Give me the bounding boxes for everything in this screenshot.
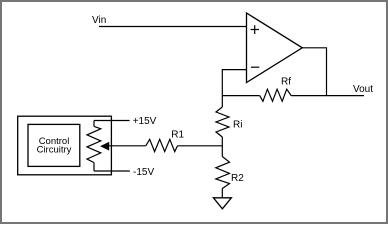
- wire wiper to R1: [108, 145, 146, 147]
- svg-text:R2: R2: [231, 173, 244, 184]
- svg-text:Vin: Vin: [92, 15, 106, 26]
- svg-text:Circuitry: Circuitry: [37, 145, 72, 156]
- svg-text:Ri: Ri: [233, 120, 242, 131]
- wire op-amp inverting input: [222, 70, 246, 96]
- op-amp U1: [247, 13, 303, 83]
- resistor Rf: [260, 77, 292, 102]
- svg-text:-15V: -15V: [133, 167, 154, 178]
- wire Vin to op-amp + input: [99, 26, 247, 28]
- node Vout: [353, 84, 373, 95]
- potentiometer: [87, 121, 109, 172]
- wire R1 row junction: [178, 145, 223, 147]
- node Vin: [92, 15, 106, 26]
- wire output to Vout: [291, 95, 364, 97]
- +15V supply: [94, 116, 157, 127]
- ground: [213, 198, 231, 209]
- svg-text:+15V: +15V: [133, 116, 157, 127]
- -15V supply: [94, 167, 154, 178]
- svg-text:Vout: Vout: [353, 84, 373, 95]
- resistor R1: [146, 130, 185, 152]
- wire feedback left segment: [222, 95, 259, 97]
- wire op-amp output to feedback corner: [302, 48, 326, 96]
- svg-text:Rf: Rf: [281, 77, 291, 88]
- resistor R2: [216, 146, 244, 198]
- resistor Ri: [216, 96, 242, 146]
- control circuitry box: [18, 116, 112, 175]
- svg-text:R1: R1: [171, 130, 184, 141]
